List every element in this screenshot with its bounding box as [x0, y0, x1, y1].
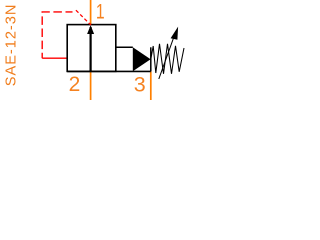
- svg-text:2: 2: [69, 73, 81, 96]
- svg-text:SAE-12-3N: SAE-12-3N: [4, 4, 20, 87]
- svg-text:3: 3: [134, 73, 146, 97]
- svg-text:1: 1: [96, 0, 105, 23]
